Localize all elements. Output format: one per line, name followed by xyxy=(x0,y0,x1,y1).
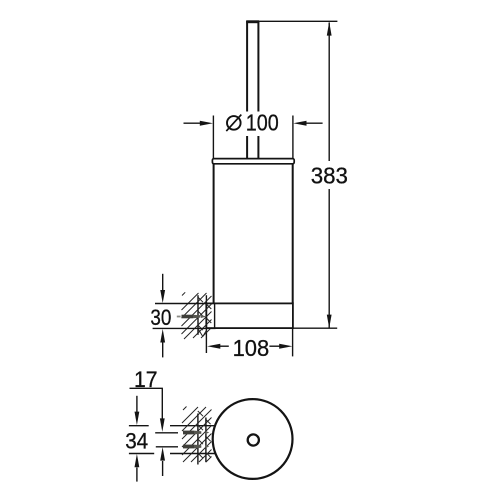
dim 108 right extension xyxy=(292,328,294,356)
wall face line xyxy=(205,295,207,353)
dim Ø100 left arrow xyxy=(184,121,214,126)
body right edge xyxy=(292,164,294,304)
plan wall hatch xyxy=(182,407,212,463)
svg-text:108: 108 xyxy=(233,335,270,361)
dim 30 top arrow xyxy=(160,274,165,303)
plan view plate bottom edge xyxy=(170,453,216,455)
dim 383 top extension xyxy=(259,20,337,22)
dim 34 bottom extension xyxy=(129,453,154,455)
bracket xyxy=(206,303,293,328)
dim 108 left arrow xyxy=(207,344,229,349)
diameter symbol xyxy=(226,115,241,132)
dim 30 bottom extension xyxy=(153,327,216,329)
dim 30 top extension xyxy=(155,303,206,305)
center small circle xyxy=(248,434,259,445)
dim 383 line upper segment xyxy=(328,23,330,162)
screw plan lower (gray) xyxy=(183,445,209,449)
dim 383 bottom arrowhead xyxy=(327,315,332,329)
dim 17 label line xyxy=(130,387,163,389)
screw plan upper (gray) xyxy=(183,431,209,435)
plan view plate top edge xyxy=(170,425,215,427)
handle left line xyxy=(246,21,248,159)
svg-text:383: 383 xyxy=(311,163,348,189)
dim 17 up arrow xyxy=(160,447,165,476)
svg-text:100: 100 xyxy=(246,110,279,136)
handle right line xyxy=(257,21,259,159)
dim 383 bottom extension xyxy=(293,327,337,329)
plan wall face line xyxy=(205,418,207,463)
svg-text:34: 34 xyxy=(125,429,148,454)
dim Ø100 left extension xyxy=(212,116,214,159)
bracket inner line xyxy=(214,304,216,328)
dim 17 down arrow xyxy=(160,388,165,432)
plan view 17 bottom line xyxy=(156,446,178,448)
dim 34 down arrow xyxy=(135,396,140,425)
screw side view (gray) xyxy=(177,315,207,319)
dim 383 line lower segment xyxy=(328,189,330,328)
circle plan view xyxy=(213,399,293,479)
body left edge xyxy=(213,164,215,304)
lid xyxy=(212,159,294,164)
dim 34 top extension xyxy=(129,425,149,427)
plan view 17 top line xyxy=(155,432,178,434)
handle top cap xyxy=(246,20,259,23)
wall line back xyxy=(197,295,199,335)
svg-text:17: 17 xyxy=(134,367,158,392)
wall hatch side view xyxy=(182,292,212,339)
dim 383 top arrowhead xyxy=(327,22,332,36)
dim Ø100 right arrow xyxy=(293,121,322,126)
dim Ø100 right extension xyxy=(292,116,294,159)
svg-text:30: 30 xyxy=(150,305,171,330)
white gap behind diameter label xyxy=(221,112,283,137)
dim 30 bottom arrow xyxy=(160,329,165,358)
dim 108 right arrow xyxy=(269,344,292,349)
plan wall back line xyxy=(197,414,199,465)
dim 34 up arrow xyxy=(135,454,140,482)
